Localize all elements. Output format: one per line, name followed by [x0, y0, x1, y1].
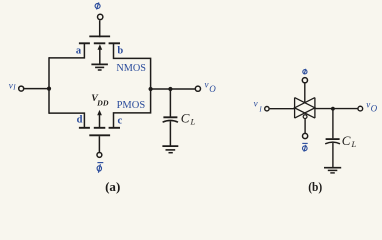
svg-text:v: v: [366, 100, 370, 110]
svg-text:O: O: [209, 84, 216, 94]
svg-text:(a): (a): [105, 179, 120, 194]
svg-text:NMOS: NMOS: [116, 62, 146, 74]
svg-text:C: C: [342, 133, 351, 148]
svg-text:PMOS: PMOS: [117, 99, 146, 111]
svg-text:I: I: [12, 83, 16, 92]
svg-text:L: L: [351, 139, 357, 149]
svg-text:L: L: [190, 116, 196, 126]
svg-text:d: d: [77, 115, 83, 126]
svg-text:v: v: [254, 99, 258, 109]
svg-text:c: c: [118, 116, 123, 127]
svg-text:a: a: [76, 45, 82, 56]
svg-text:C: C: [181, 110, 190, 125]
svg-text:v: v: [205, 79, 209, 89]
svg-text:DD: DD: [96, 100, 108, 108]
svg-text:(b): (b): [308, 179, 322, 194]
svg-text:O: O: [371, 103, 378, 113]
svg-text:v: v: [9, 80, 13, 90]
svg-text:b: b: [117, 46, 123, 57]
